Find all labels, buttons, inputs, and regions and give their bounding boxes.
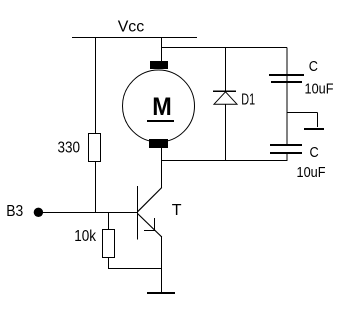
svg-text:B3: B3 [6,203,23,220]
svg-text:10k: 10k [74,228,97,245]
svg-text:330: 330 [58,139,81,156]
svg-text:10uF: 10uF [305,80,334,97]
svg-text:D1: D1 [241,92,255,109]
svg-text:C: C [309,58,318,75]
svg-text:T: T [172,202,182,219]
svg-text:C: C [310,144,319,161]
svg-text:10uF: 10uF [297,164,326,181]
svg-text:Vcc: Vcc [118,18,145,35]
svg-text:M: M [152,93,172,121]
